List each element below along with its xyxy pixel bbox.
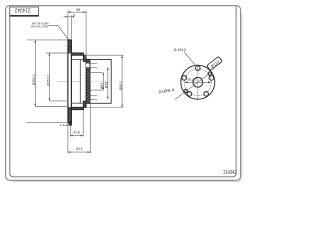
svg-text:MAX DIA 177MM: MAX DIA 177MM xyxy=(31,24,48,28)
drum interior rectangle xyxy=(90,60,111,104)
inner frame xyxy=(10,6,236,177)
disc ring section xyxy=(68,40,72,123)
hat top wall xyxy=(71,53,83,55)
rotated tag box xyxy=(207,56,223,70)
svg-text:63.4: 63.4 xyxy=(76,147,83,151)
bore lines xyxy=(90,72,103,74)
svg-text:8: 8 xyxy=(73,13,75,17)
page shadow xyxy=(12,14,242,182)
hat inner surface line xyxy=(79,60,81,104)
centerline xyxy=(57,80,80,82)
vertical centerline xyxy=(197,64,199,101)
outer border frame xyxy=(6,6,241,181)
dimension: disc OD (left outer) xyxy=(27,39,68,41)
svg-text:Ø86.2: Ø86.2 xyxy=(119,81,123,90)
svg-text:1.2: 1.2 xyxy=(60,123,65,127)
top dimension: disc thickness xyxy=(64,16,72,18)
neck top xyxy=(83,55,86,61)
bolt circle (dashed) xyxy=(184,69,211,96)
dimension: bore xyxy=(102,73,104,91)
dimension: hat ID (tall right) xyxy=(84,54,123,56)
bottom dimension: hat depth 41.8 xyxy=(69,125,71,136)
dimension: friction ID (left inner) xyxy=(46,52,71,54)
dimension: register dia xyxy=(107,67,109,99)
svg-text:Ø262.4: Ø262.4 xyxy=(32,74,36,85)
center hole xyxy=(193,77,203,87)
bolt circle dia dim (horizontal) xyxy=(185,81,211,83)
svg-text:58: 58 xyxy=(76,8,80,12)
title block cell xyxy=(10,7,39,16)
hat bottom wall xyxy=(71,107,83,109)
top dimension: overall height xyxy=(68,11,86,13)
svg-text:41.8: 41.8 xyxy=(73,131,80,135)
bottom small step + 1.2 dim xyxy=(69,123,71,126)
bolt holes 5x72 xyxy=(196,66,201,71)
svg-text:Ø64: Ø64 xyxy=(100,83,104,89)
svg-text:Ø114.3: Ø114.3 xyxy=(188,77,198,81)
note leader line xyxy=(48,26,68,40)
outer circle xyxy=(181,65,215,99)
svg-text:5-M12: 5-M12 xyxy=(174,48,186,52)
flange plate xyxy=(86,59,90,103)
svg-text:Ø78: Ø78 xyxy=(105,82,109,88)
svg-text:214342: 214342 xyxy=(15,7,31,13)
bolt hole gap in flange xyxy=(86,63,90,67)
svg-text:Ø157.2: Ø157.2 xyxy=(46,75,50,86)
diagonal line with small holes xyxy=(175,72,212,99)
svg-text:214342: 214342 xyxy=(223,170,236,176)
neck bottom xyxy=(83,101,86,107)
bottom dimension: overall 63.4 xyxy=(67,124,69,153)
